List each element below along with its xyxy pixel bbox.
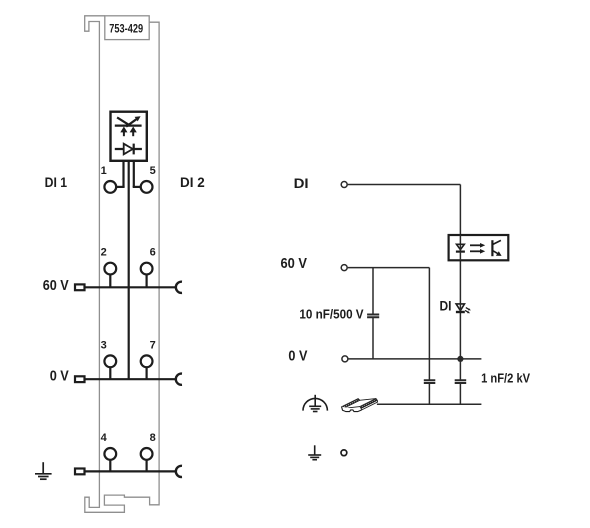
svg-text:2: 2 (101, 247, 107, 259)
svg-text:3: 3 (101, 339, 107, 351)
svg-text:1 nF/2 kV: 1 nF/2 kV (481, 370, 530, 385)
svg-text:5: 5 (150, 165, 156, 177)
svg-text:60 V: 60 V (281, 256, 308, 272)
svg-text:10 nF/500 V: 10 nF/500 V (299, 307, 363, 322)
svg-text:DI 1: DI 1 (45, 175, 68, 190)
svg-text:8: 8 (150, 432, 156, 444)
svg-text:0 V: 0 V (288, 349, 307, 365)
svg-text:60 V: 60 V (43, 278, 69, 294)
svg-text:6: 6 (150, 247, 156, 259)
svg-text:1: 1 (101, 165, 107, 177)
svg-text:DI: DI (440, 298, 452, 313)
svg-text:753-429: 753-429 (109, 21, 143, 35)
svg-text:4: 4 (101, 432, 108, 444)
svg-text:DI: DI (294, 175, 309, 191)
svg-text:DI 2: DI 2 (180, 175, 205, 190)
svg-text:0 V: 0 V (50, 369, 70, 385)
svg-text:7: 7 (150, 339, 156, 351)
